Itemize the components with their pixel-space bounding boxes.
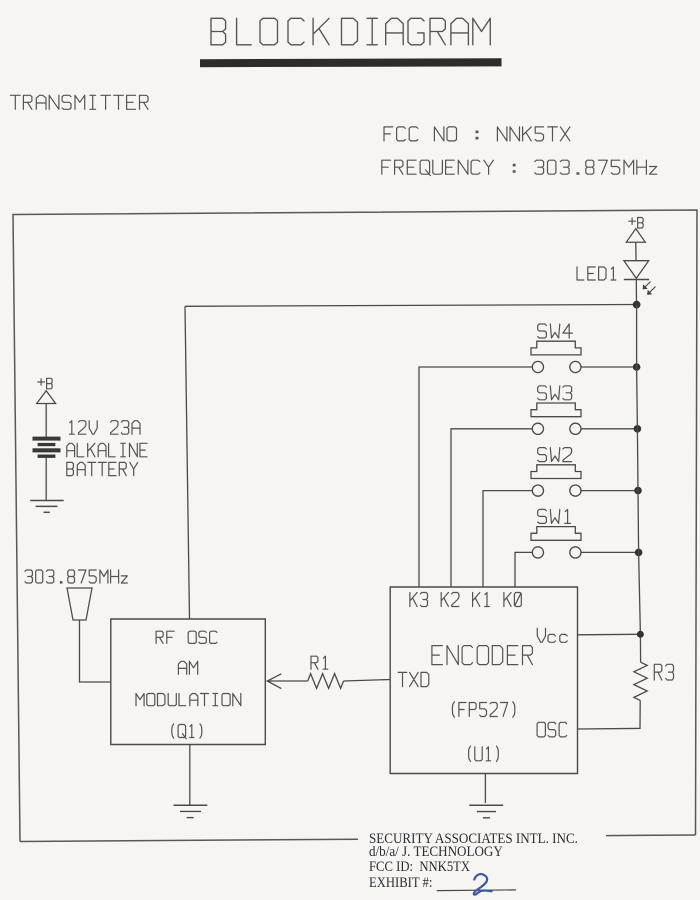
node +B (LED supply)	[629, 218, 643, 229]
main schematic border	[13, 210, 697, 842]
+B bus vertical	[637, 305, 641, 663]
LED1 cathode bar	[624, 279, 649, 281]
label (FP527)	[452, 702, 514, 717]
handwritten exhibit number 2	[474, 874, 492, 895]
antenna E1	[67, 588, 92, 620]
label LED1	[577, 267, 616, 280]
arrow into RF OSC (TXD signal)	[267, 674, 281, 689]
label R1	[311, 656, 328, 669]
wire SW2 left contact to K column	[483, 491, 532, 587]
switch SW2	[538, 448, 572, 462]
label BATTERY	[67, 462, 138, 475]
resistor R1	[308, 674, 344, 689]
wire RF OSC bottom to ground	[189, 745, 191, 805]
ground (encoder)	[469, 804, 503, 806]
pins K3 K2 K1 K0	[410, 593, 511, 607]
LED light arrows	[644, 282, 656, 295]
wire R3 to OSC	[578, 700, 641, 729]
label AM	[178, 661, 197, 674]
wire antenna to RF OSC	[80, 620, 111, 682]
wire +B to LED anode	[635, 242, 637, 260]
title BLOCK DIAGRAM	[211, 18, 490, 45]
pin TXD	[398, 672, 429, 686]
label TRANSMITTER	[11, 95, 149, 109]
wire +B to battery top	[45, 404, 47, 437]
junction dot SW4/bus	[633, 363, 641, 371]
company label d/b/a/ J. TECHNOLOGY	[369, 845, 503, 860]
battery BT1 plates	[33, 437, 61, 441]
wire SW3 right contact to +B bus	[581, 428, 637, 430]
label FREQUENCY : 303.875MHz	[382, 160, 657, 175]
label ENCODER	[432, 646, 533, 665]
wire encoder bottom to ground	[484, 774, 486, 804]
block ENCODER (FP527) U1	[390, 587, 577, 774]
wire LED cathode to bus	[635, 280, 637, 305]
node +B (battery supply)	[38, 378, 52, 389]
wire R1 to encoder TXD	[344, 680, 391, 682]
wire SW4 right contact to +B bus	[581, 366, 637, 368]
ground (RF OSC)	[174, 804, 208, 806]
pin OSC	[537, 722, 567, 737]
wire RF OSC top to +B rail	[185, 306, 190, 619]
pin Vcc	[537, 628, 545, 642]
switch SW3	[538, 386, 572, 400]
label EXHIBIT #:	[369, 876, 432, 891]
wire Vcc to bus	[578, 633, 641, 636]
block RF OSC / AM MODULATION (Q1)	[111, 619, 265, 745]
wire SW3 left contact to K column	[451, 429, 532, 587]
label ALKALINE	[67, 443, 147, 457]
label 303.875MHz (antenna)	[25, 570, 127, 583]
junction dot SW2/bus	[634, 487, 642, 495]
company label SECURITY ASSOCIATES INTL. INC.	[369, 832, 578, 847]
junction dot Vcc/bus	[637, 631, 644, 638]
label FCC NO : NNK5TX	[384, 127, 570, 141]
label (Q1)	[172, 724, 202, 739]
switch SW4	[538, 324, 573, 338]
junction dot SW1/bus	[635, 549, 643, 557]
label 12V 23A	[70, 421, 141, 435]
LED LED1 diode triangle	[624, 261, 649, 279]
wire top rail to LED node	[185, 305, 637, 307]
label RF OSC	[156, 631, 217, 643]
label (U1)	[469, 746, 499, 761]
power symbol triangle (LED)	[626, 229, 645, 243]
wire SW2 right contact to +B bus	[581, 490, 638, 492]
label R3	[654, 664, 673, 680]
wire arrow to R1	[267, 680, 307, 682]
switch SW1	[538, 509, 571, 523]
resistor R3	[634, 662, 647, 700]
wire SW4 left contact to K column	[419, 367, 532, 587]
exhibit underline	[437, 889, 516, 892]
wire SW1 right contact to +B bus	[581, 551, 639, 553]
title underline bar	[200, 58, 502, 67]
label FCC ID: NNK5TX	[369, 860, 470, 875]
power symbol triangle (battery)	[37, 391, 56, 404]
junction dot SW3/bus	[634, 425, 642, 433]
wire battery bottom to ground	[45, 458, 47, 500]
junction dot LED/top rail	[633, 301, 641, 309]
ground (battery)	[30, 500, 64, 502]
label MODULATION	[136, 694, 241, 706]
wire SW1 left contact to K column	[515, 552, 532, 587]
